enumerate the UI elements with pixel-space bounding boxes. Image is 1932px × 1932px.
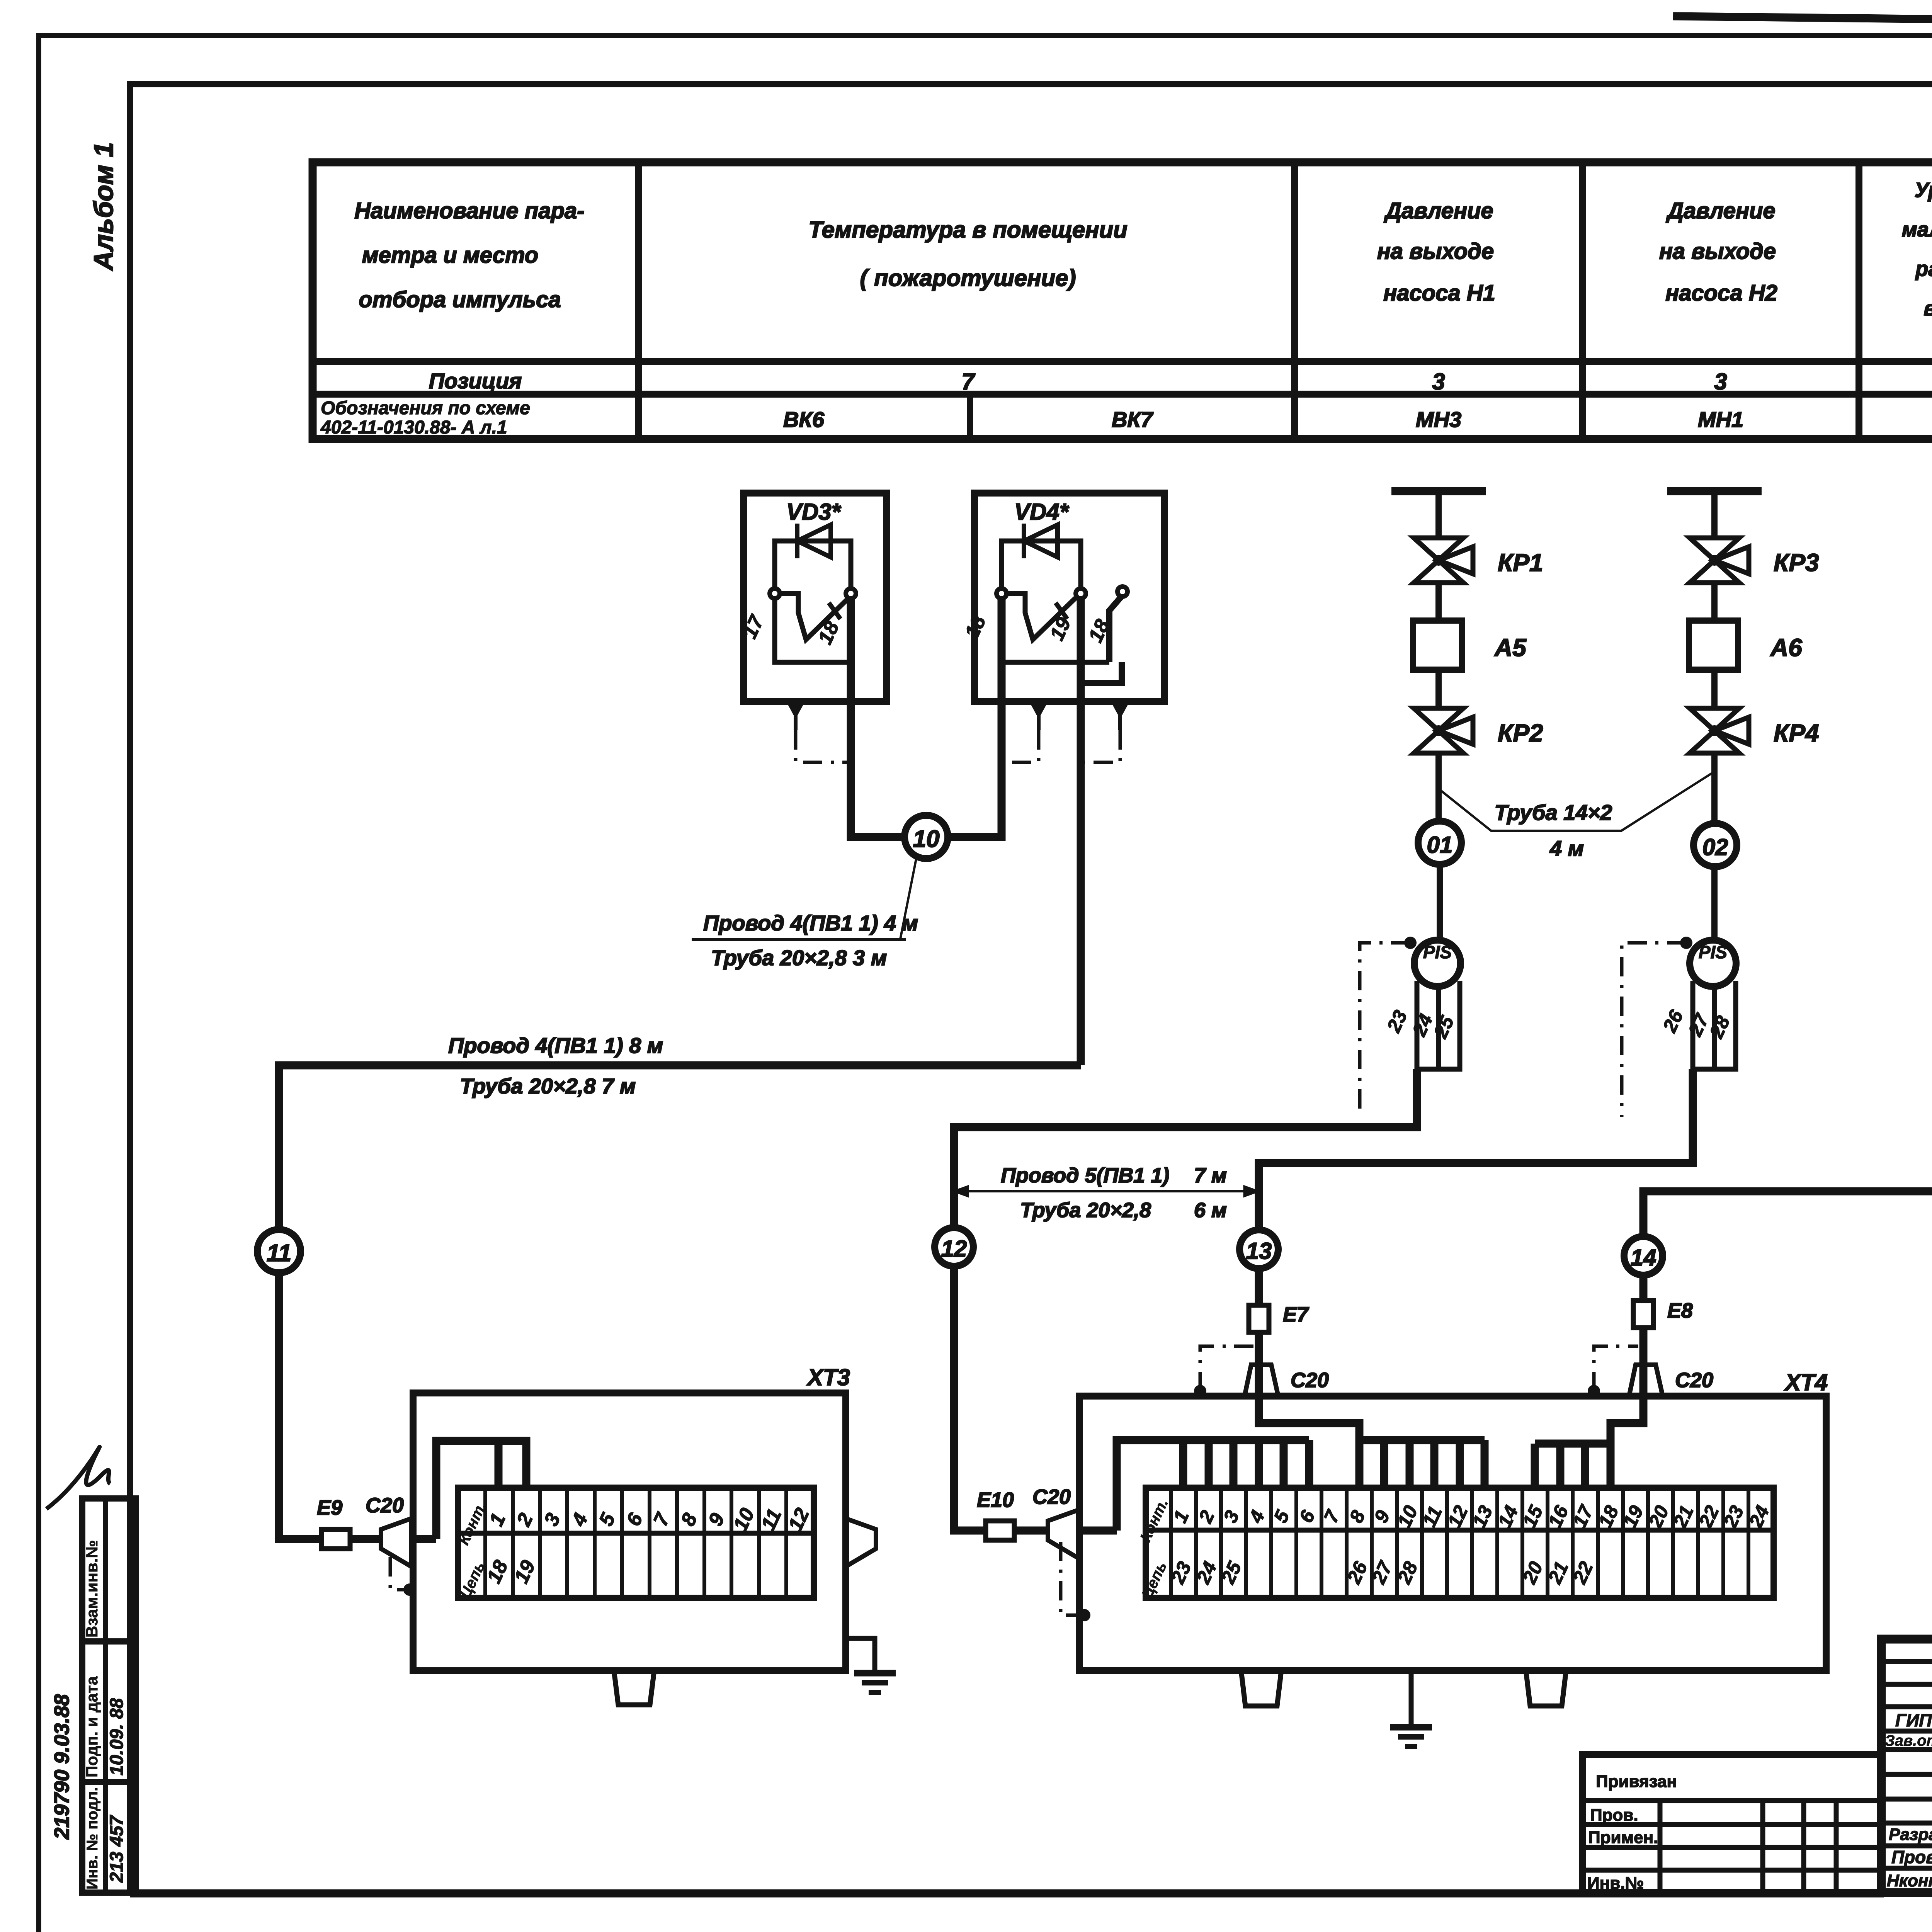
node: VD3 cable gland stub	[788, 701, 803, 715]
wire: E9 to C20 XT3	[350, 1535, 381, 1543]
component box XT4 terminal block	[1080, 1396, 1826, 1670]
svg-text:Нконтр.: Нконтр.	[1887, 1871, 1932, 1890]
svg-text:14: 14	[1631, 1245, 1656, 1270]
svg-text:КР1: КР1	[1498, 549, 1543, 577]
wire: VD4 shield dash-dot 2	[1084, 730, 1120, 762]
node: VD4 terminal 18b circle	[1117, 587, 1128, 597]
svg-text:ГИП: ГИП	[1895, 1710, 1932, 1730]
wire: stem A5	[1435, 583, 1442, 621]
node: VD3 terminal 17 circle	[770, 588, 780, 599]
component box A6	[1689, 621, 1738, 670]
wire: XT4 drop terminal 16	[1556, 1444, 1565, 1488]
node: VD4 cable gland stub 2	[1113, 701, 1128, 715]
svg-text:Инв. № подл.: Инв. № подл.	[84, 1787, 101, 1889]
svg-text:12: 12	[941, 1236, 967, 1262]
svg-text:Провод 5(ПВ1 1): Провод 5(ПВ1 1)	[1001, 1164, 1169, 1187]
wire: VD3 shield dash-dot	[796, 730, 851, 762]
svg-text:11: 11	[267, 1240, 291, 1267]
svg-text:Провод 4(ПВ1 1) 4 м: Провод 4(ПВ1 1) 4 м	[703, 911, 918, 935]
node 14 circle	[1624, 1236, 1663, 1275]
svg-text:Обозначения по схеме: Обозначения по схеме	[321, 398, 530, 418]
component box VD4 enclosure	[975, 493, 1165, 701]
svg-text:10: 10	[913, 826, 940, 852]
wire: leader to cable label 10	[900, 857, 917, 939]
svg-text:С20: С20	[1032, 1485, 1071, 1509]
svg-text:Привязан: Привязан	[1596, 1772, 1677, 1791]
node: process header bar left	[1391, 487, 1486, 495]
node: XT4 terminal strip	[1146, 1488, 1774, 1598]
component box VD3 enclosure	[743, 493, 886, 701]
svg-text:Взам.инв.№: Взам.инв.№	[83, 1540, 101, 1638]
svg-text:ВК7: ВК7	[1112, 407, 1154, 432]
wire: XT4 drop terminal 3	[1230, 1440, 1238, 1488]
wire: XT4 drop terminal 6	[1305, 1440, 1313, 1488]
wire: XT4 comb bus terminals 15-17	[1535, 1440, 1611, 1448]
svg-text:( пожаротушение): ( пожаротушение)	[860, 265, 1076, 291]
svg-text:КР2: КР2	[1498, 719, 1543, 747]
valve KP2	[1414, 708, 1463, 731]
wire: stem A6	[1711, 583, 1718, 621]
node: XT4 mounting foot left	[1241, 1670, 1281, 1706]
svg-text:VD4*: VD4*	[1014, 499, 1070, 525]
wire: E8 shield dash-dot	[1588, 1385, 1600, 1397]
svg-text:мальный раство-: мальный раство-	[1902, 218, 1932, 241]
wire: XT4 drop terminal 4	[1255, 1440, 1263, 1488]
svg-text:6 м: 6 м	[1194, 1199, 1227, 1222]
svg-text:Труба 20×2,8: Труба 20×2,8	[1020, 1199, 1151, 1222]
svg-text:ХТ4: ХТ4	[1784, 1369, 1828, 1395]
node: VD4 inner device rectangle	[1002, 598, 1109, 662]
wire: 02 to PIS right	[1711, 867, 1718, 940]
wire: XT4 drop terminal 5	[1280, 1440, 1288, 1488]
wire: XT3 internal loop to terminals	[411, 1535, 436, 1543]
wire: stem to circle 02	[1711, 753, 1718, 823]
svg-text:Давление: Давление	[1383, 198, 1493, 223]
svg-text:МН3: МН3	[1416, 407, 1461, 432]
wire: XT4 drop terminal 12	[1456, 1440, 1464, 1488]
node: privyazan attachment table	[1582, 1754, 1881, 1893]
svg-text:7: 7	[961, 369, 975, 395]
svg-text:Труба 14×2: Труба 14×2	[1495, 800, 1612, 825]
svg-text:насоса Н1: насоса Н1	[1383, 281, 1495, 306]
svg-text:метра и место: метра и место	[362, 243, 538, 268]
valve KP4	[1690, 708, 1739, 731]
svg-text:3: 3	[1432, 369, 1445, 395]
wire: E10 to C20 XT4	[1014, 1527, 1048, 1535]
svg-text:3: 3	[1714, 369, 1727, 395]
valve KP3	[1690, 538, 1739, 560]
node: VD3 inner device rectangle	[775, 598, 851, 662]
svg-text:Е8: Е8	[1667, 1299, 1693, 1322]
svg-text:МН1: МН1	[1698, 407, 1743, 432]
wire: XT4 drop terminal 9	[1380, 1440, 1388, 1488]
valve KP1	[1414, 538, 1463, 560]
op-amp PIS right instrument circle	[1690, 940, 1736, 986]
wire: XT4 drop terminal 11	[1430, 1440, 1439, 1488]
svg-text:Позиция: Позиция	[429, 369, 522, 393]
svg-text:ВК6: ВК6	[783, 407, 825, 432]
node 10 circle	[905, 815, 948, 859]
node: XT3 terminal strip	[458, 1488, 814, 1598]
wire: XT4 entry shield dash-dot	[1061, 1542, 1082, 1615]
node 01 circle	[1418, 821, 1461, 864]
wire: stem KP1	[1435, 491, 1442, 539]
svg-text:Давление: Давление	[1665, 198, 1775, 223]
svg-text:Подп. и дата: Подп. и дата	[83, 1676, 101, 1777]
svg-text:Провод 4(ПВ1 1) 8 м: Провод 4(ПВ1 1) 8 м	[448, 1033, 663, 1058]
wire: XT4 drop terminal 10	[1406, 1440, 1414, 1488]
svg-text:на выходе: на выходе	[1377, 239, 1494, 264]
wire: XT4 drop terminal 13	[1481, 1440, 1489, 1488]
resistor E10	[986, 1521, 1014, 1540]
diode VD3	[797, 525, 831, 557]
wire: stem to circle 01	[1435, 753, 1442, 821]
svg-text:02: 02	[1702, 834, 1728, 860]
svg-text:01: 01	[1427, 832, 1453, 858]
wire: stem KP2	[1435, 670, 1442, 709]
wire: XT3 entry shield dash-dot	[390, 1557, 406, 1590]
ground XT4	[1409, 1670, 1414, 1727]
node: title block left grid	[1881, 1659, 1932, 1664]
resistor E7	[1249, 1305, 1269, 1332]
svg-text:отбора импульса: отбора импульса	[359, 287, 561, 312]
wire: XT4 comb bus terminals 1-6	[1117, 1440, 1309, 1531]
svg-text:402-11-0130.88- А л.1: 402-11-0130.88- А л.1	[320, 417, 507, 438]
wire: VD4 pin19 long run down	[1077, 598, 1085, 1065]
node: VD4 terminal 19 circle	[1076, 588, 1086, 599]
node: VD4 terminal 18 circle	[997, 588, 1007, 599]
wire: E7 into XT4 to terminal 8	[1259, 1332, 1359, 1488]
svg-text:КР3: КР3	[1774, 549, 1819, 577]
wire: VD4 third terminal lead	[1109, 597, 1121, 662]
wire: VD4 shield dash-dot 1	[1005, 730, 1039, 762]
svg-text:Е10: Е10	[977, 1488, 1014, 1512]
svg-text:Наименование пара-: Наименование пара-	[354, 198, 584, 223]
node: handwritten signature squiggle	[46, 1447, 110, 1509]
svg-text:10.09. 88: 10.09. 88	[107, 1698, 127, 1776]
wire: node 13 down to E7	[1255, 1269, 1263, 1305]
diode VD4	[1024, 525, 1058, 557]
node: XT3 right connector	[846, 1519, 876, 1566]
svg-text:Примен.: Примен.	[1588, 1828, 1658, 1847]
wire: PIS left shield dash-dot	[1404, 937, 1417, 949]
node: left stamp column table	[82, 1498, 136, 1893]
node: C20 connector at E7	[1245, 1365, 1278, 1396]
wire: PIS right shield dash-dot	[1680, 937, 1692, 949]
svg-text:ра ингибитора: ра ингибитора	[1915, 257, 1932, 281]
node: VD3 thermal contact	[780, 594, 849, 639]
wire: 01 to PIS left	[1437, 864, 1443, 940]
svg-text:Пров.: Пров.	[1891, 1847, 1932, 1867]
node: VD3 terminal 18 circle	[846, 588, 856, 599]
svg-text:в емкости А4: в емкости А4	[1923, 297, 1932, 320]
svg-text:насоса Н2: насоса Н2	[1665, 281, 1777, 306]
node 13 circle	[1240, 1230, 1278, 1269]
svg-text:Е9: Е9	[317, 1496, 342, 1519]
node: process header bar right	[1667, 487, 1762, 495]
wire: XT4 drop terminal 2	[1205, 1440, 1213, 1488]
svg-text:ХТ3: ХТ3	[806, 1364, 850, 1390]
node: inner frame bottom line	[130, 1889, 1884, 1898]
node 02 circle	[1694, 823, 1737, 867]
wire: stem KP4	[1711, 670, 1718, 709]
node: truba 14x2 leader lines	[1441, 773, 1713, 831]
svg-text:А5: А5	[1494, 634, 1527, 662]
node: XT3 mounting foot	[614, 1671, 654, 1705]
svg-text:Е7: Е7	[1283, 1303, 1310, 1326]
resistor E8	[1633, 1301, 1653, 1328]
wire: stem KP3	[1711, 491, 1718, 539]
svg-text:КР4: КР4	[1774, 719, 1819, 747]
svg-text:Разраб.: Разраб.	[1889, 1825, 1932, 1844]
node: C20 connector XT3 entry	[381, 1519, 411, 1566]
wire: E7 shield dash-dot	[1194, 1385, 1206, 1397]
wire: PIS right down to node 13	[1259, 1069, 1693, 1230]
svg-text:С20: С20	[366, 1494, 404, 1517]
svg-text:13: 13	[1246, 1238, 1272, 1264]
wire: provod4 8m horizontal run	[279, 1065, 1081, 1229]
resistor E9	[321, 1529, 350, 1549]
node: table col2 bottom split	[967, 394, 973, 439]
wire: E8 into XT4 to terminal 18	[1611, 1328, 1643, 1488]
node: VD4 cable gland stub 1	[1031, 701, 1046, 715]
component box XT3 terminal block	[413, 1393, 846, 1671]
node: title block frame	[1881, 1639, 1932, 1893]
svg-text:PIS: PIS	[1699, 942, 1727, 962]
op-amp PIS left instrument circle	[1414, 940, 1461, 986]
svg-text:А6: А6	[1770, 634, 1802, 662]
wire: node 11 down to E9	[279, 1273, 321, 1539]
ground XT3	[846, 1638, 875, 1673]
svg-text:Пров.: Пров.	[1590, 1806, 1638, 1825]
node: C20 connector at E8	[1629, 1365, 1663, 1396]
node 12 circle	[935, 1228, 973, 1266]
component box A5	[1413, 621, 1462, 670]
wire: XT4 drop terminal 17	[1581, 1444, 1589, 1488]
wire: XT4 drop terminal 15	[1531, 1444, 1539, 1488]
node: VD4 thermal contact	[1007, 594, 1075, 639]
wire: node 12 down to E10	[954, 1266, 986, 1531]
svg-text:PIS: PIS	[1423, 942, 1452, 962]
wire: XT4 drop terminal 1	[1179, 1440, 1187, 1488]
wire: VD3 pin18 down to node 10	[851, 598, 905, 837]
svg-text:Труба 20×2,8 7 м: Труба 20×2,8 7 м	[460, 1074, 636, 1098]
wire: node 14 down to E8	[1639, 1275, 1648, 1301]
svg-text:Инв.№: Инв.№	[1587, 1874, 1644, 1893]
node: XT4 mounting foot right	[1526, 1670, 1566, 1706]
wire: top scan streak artifact	[1673, 16, 1932, 19]
svg-text:4 м: 4 м	[1549, 836, 1584, 861]
svg-text:213 457: 213 457	[107, 1815, 127, 1883]
wire: entry into XT4	[1078, 1527, 1117, 1535]
wire: PIS left down to node 12	[954, 1069, 1417, 1228]
node: parameter table outline	[313, 162, 1932, 439]
node: PIS right cable box	[1693, 981, 1736, 1069]
svg-text:С20: С20	[1675, 1369, 1713, 1392]
svg-text:Труба 20×2,8 3 м: Труба 20×2,8 3 м	[711, 946, 887, 970]
svg-text:Зав.отд.: Зав.отд.	[1885, 1732, 1932, 1749]
node: provod5 dimension line	[954, 1190, 1258, 1192]
svg-text:Уровень макси-: Уровень макси-	[1915, 179, 1932, 202]
wire: XT4 comb bus terminals 9-13	[1359, 1436, 1485, 1444]
node: PIS left cable box	[1417, 981, 1460, 1069]
node 11 circle	[257, 1230, 301, 1273]
wire: LS down to node 14	[1643, 609, 1932, 1236]
svg-text:Альбом 1: Альбом 1	[88, 142, 119, 271]
svg-text:на выходе: на выходе	[1659, 239, 1776, 264]
svg-text:Температура в помещении: Температура в помещении	[808, 217, 1128, 243]
node: C20 connector XT4 entry	[1048, 1510, 1078, 1558]
svg-text:219790 9.03.88: 219790 9.03.88	[50, 1694, 73, 1840]
wire: node10 to VD4 pin18	[947, 598, 1002, 837]
svg-text:VD3*: VD3*	[786, 499, 842, 525]
svg-text:7 м: 7 м	[1194, 1164, 1227, 1187]
svg-text:С20: С20	[1291, 1369, 1329, 1392]
